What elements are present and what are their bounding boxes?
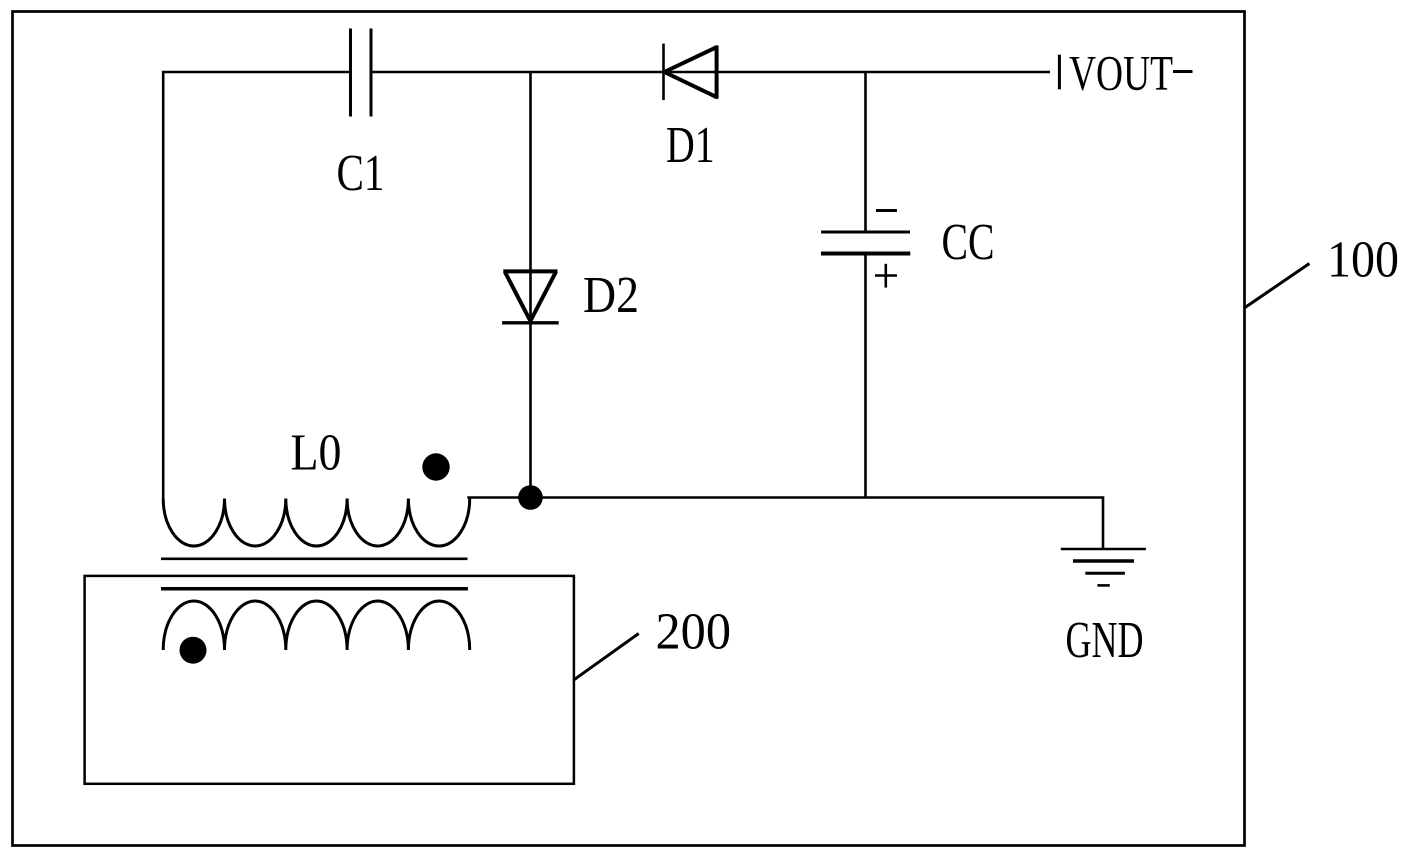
phase dot primary <box>422 453 449 480</box>
wire: CC branch upper <box>864 72 867 232</box>
svg-text:CC: CC <box>942 213 995 271</box>
svg-text:VOUT: VOUT <box>1069 45 1173 101</box>
diode D2 <box>502 271 559 322</box>
core line upper <box>161 557 468 560</box>
polarity minus mark <box>876 209 897 212</box>
junction node dot <box>518 485 543 510</box>
phase dot secondary <box>180 637 207 664</box>
svg-text:D1: D1 <box>666 116 715 174</box>
wire: D2 branch vertical <box>529 72 532 498</box>
module 200 box <box>85 576 574 784</box>
svg-text:100: 100 <box>1327 231 1399 289</box>
polarity plus mark <box>875 264 897 288</box>
leader line to 200 <box>574 634 639 680</box>
wire: CC branch lower <box>864 254 867 498</box>
svg-text:C1: C1 <box>337 144 385 202</box>
wire: mid horizontal wire and drop to ground <box>467 498 1103 550</box>
svg-text:L0: L0 <box>291 424 342 482</box>
inductor L0 primary winding <box>163 499 469 547</box>
capacitor C1 <box>351 29 372 117</box>
svg-text:GND: GND <box>1066 611 1144 669</box>
wire: top wire right segment (C1 to VOUT) <box>371 71 1050 74</box>
label VOUT dash <box>1173 70 1193 73</box>
core line lower <box>161 587 468 591</box>
leader line to 100 <box>1245 264 1310 308</box>
diode D1 <box>664 44 718 101</box>
secondary winding <box>163 601 469 650</box>
ground symbol <box>1061 549 1146 585</box>
wire: top-left L (top wire left segment + left vertical wire) <box>163 72 350 499</box>
capacitor CC <box>821 232 910 254</box>
VOUT- terminal tick <box>1058 55 1061 90</box>
svg-text:D2: D2 <box>583 266 639 324</box>
svg-text:200: 200 <box>656 602 732 660</box>
